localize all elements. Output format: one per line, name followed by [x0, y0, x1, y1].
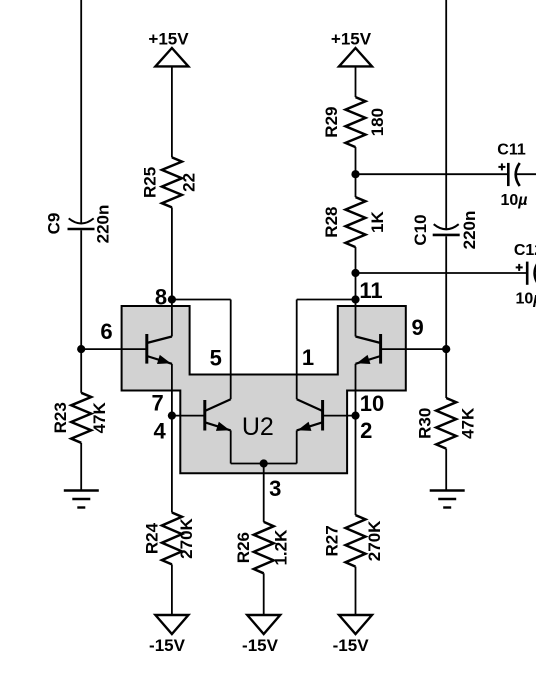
wire +15V to R25	[171, 66, 173, 157]
wire R28 to pin 11	[355, 247, 357, 299]
power -15V (left)	[149, 615, 188, 655]
svg-text:270K: 270K	[177, 517, 196, 558]
node dot C9/R23/pin6	[77, 345, 85, 353]
ground (right)	[430, 491, 465, 508]
wire pin 1 riser (vertical)	[296, 300, 298, 400]
wire R24 to -15V	[171, 564, 173, 615]
ground (left)	[64, 491, 99, 508]
svg-text:-15V: -15V	[333, 636, 370, 655]
svg-text:47K: 47K	[459, 407, 478, 439]
wire R29 to junction	[355, 147, 357, 197]
svg-text:220n: 220n	[460, 211, 479, 250]
capacitor C9	[45, 205, 113, 244]
resistor R27 270K	[323, 515, 385, 567]
wire pin11 to pin1 riser (horizontal)	[297, 299, 356, 301]
resistor R25 22	[141, 157, 199, 207]
svg-text:4: 4	[153, 418, 166, 443]
capacitor C11 10u	[497, 142, 536, 210]
node dot R29/R28/C11	[351, 170, 359, 178]
svg-text:1: 1	[302, 345, 314, 370]
node dot R28/C12	[351, 269, 359, 277]
svg-text:1K: 1K	[368, 211, 387, 233]
wire C10 input vertical top	[445, 0, 447, 229]
wire C10 to node 9	[445, 236, 447, 349]
svg-text:R29: R29	[322, 107, 341, 138]
svg-text:C9: C9	[45, 213, 64, 235]
transistor Q left outer (pins 6,8,7)	[147, 334, 172, 368]
node dot pins 7/4	[168, 412, 176, 420]
svg-text:C10: C10	[411, 214, 430, 245]
wire T1 collector vertical	[171, 300, 173, 337]
wire pins10/2 down to R27	[355, 416, 357, 515]
wire R26 to -15V	[263, 573, 265, 615]
svg-text:U2: U2	[242, 413, 274, 441]
svg-text:R25: R25	[141, 167, 160, 198]
svg-text:+15V: +15V	[148, 30, 189, 49]
resistor R28 1K	[322, 197, 387, 247]
power -15V (middle)	[242, 615, 280, 655]
svg-text:7: 7	[151, 391, 163, 416]
svg-text:R30: R30	[416, 408, 435, 439]
node dot pin 3	[260, 459, 268, 467]
wire pin 3 down to R26	[263, 464, 265, 522]
svg-text:6: 6	[100, 319, 112, 344]
wire pins7/4 down to R24	[171, 416, 173, 513]
svg-text:R28: R28	[322, 207, 341, 238]
resistor R26 1.2K	[234, 522, 291, 573]
wire node to R23	[80, 349, 82, 393]
wire emitter rail	[231, 463, 297, 465]
svg-text:C12: C12	[514, 242, 536, 259]
transistor Q right outer (pins 9,11,10)	[355, 334, 380, 368]
wire T1 emitter vertical	[171, 364, 173, 416]
transistor Q middle-left (pins 4,5,3)	[205, 399, 231, 434]
svg-text:R26: R26	[234, 532, 253, 563]
svg-text:11: 11	[359, 278, 382, 303]
wire +15V to R29	[355, 66, 357, 97]
wire pin 2 base (to T3)	[323, 415, 356, 417]
svg-text:R24: R24	[143, 522, 162, 554]
svg-text:22: 22	[180, 173, 199, 192]
power -15V (right)	[333, 615, 372, 655]
svg-text:2: 2	[360, 418, 372, 443]
wire junction to C11	[356, 173, 508, 175]
wire pin 4 base (to T2)	[172, 415, 205, 417]
wire pin 5 riser (vertical)	[230, 300, 232, 400]
svg-text:47K: 47K	[90, 401, 109, 433]
capacitor C10	[411, 211, 479, 250]
node dot pin9/R30	[442, 345, 450, 353]
resistor R29 180	[322, 97, 387, 147]
wire C9 to node 6	[80, 230, 82, 349]
wire pin 6 base	[81, 348, 147, 350]
wire T2 emitter vertical	[230, 430, 232, 463]
wire node to R30	[445, 349, 447, 398]
resistor R24 270K	[143, 513, 197, 565]
svg-text:220n: 220n	[94, 205, 113, 244]
wire R25 to pin 8	[171, 207, 173, 299]
svg-text:10µ: 10µ	[515, 291, 536, 308]
wire R30 to ground	[445, 449, 447, 491]
svg-text:180: 180	[368, 108, 387, 136]
capacitor C12 10u	[514, 242, 536, 308]
svg-text:10µ: 10µ	[500, 192, 527, 209]
wire junction to C12	[356, 272, 527, 274]
node dot pins 10/2	[351, 412, 359, 420]
power +15V (left)	[148, 30, 189, 67]
wire R23 to ground	[80, 443, 82, 491]
svg-text:R23: R23	[51, 402, 70, 433]
power +15V (right)	[331, 30, 372, 67]
svg-text:5: 5	[210, 346, 222, 371]
resistor R23 47K	[51, 393, 109, 443]
wire pin 9 base	[381, 348, 447, 350]
svg-text:R27: R27	[323, 525, 342, 556]
node dot pin 11	[351, 295, 359, 303]
wire R27 to -15V	[355, 567, 357, 615]
svg-text:270K: 270K	[365, 520, 384, 561]
wire left input vertical top	[80, 0, 82, 223]
wire pin8 to pin5 riser (horizontal)	[172, 299, 231, 301]
wire T4 collector vertical	[355, 300, 357, 337]
wire T3 emitter vertical	[296, 430, 298, 463]
svg-text:C11: C11	[497, 142, 526, 159]
svg-text:+15V: +15V	[331, 30, 372, 49]
svg-text:8: 8	[155, 285, 167, 310]
transistor Q middle-right (pins 2,1,3)	[296, 399, 322, 434]
svg-text:-15V: -15V	[149, 636, 186, 655]
svg-text:9: 9	[411, 315, 423, 340]
wire T4 emitter vertical	[355, 364, 357, 416]
resistor R30 47K	[416, 398, 478, 449]
node dot pin 8	[168, 295, 176, 303]
IC U2 body (gray U-shaped transistor-array region)	[122, 306, 406, 473]
svg-text:-15V: -15V	[242, 636, 279, 655]
svg-text:3: 3	[269, 476, 281, 501]
svg-text:1.2K: 1.2K	[272, 529, 291, 566]
svg-text:10: 10	[360, 391, 384, 416]
